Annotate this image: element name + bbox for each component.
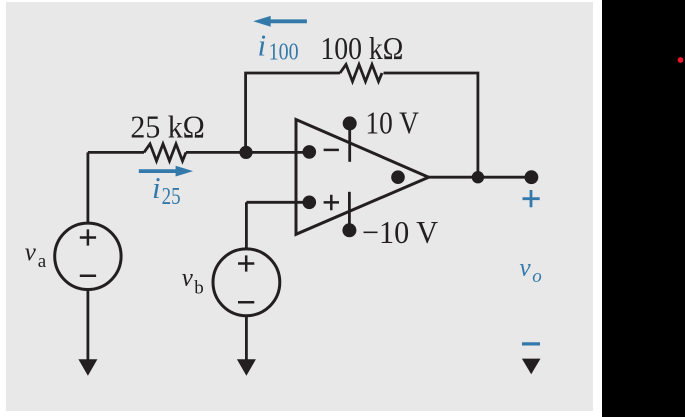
svg-text:i: i (258, 28, 267, 63)
svg-text:v: v (520, 254, 532, 281)
output reference arrowhead (522, 359, 541, 375)
node dot +10V (343, 116, 357, 130)
svg-text:100: 100 (269, 39, 299, 65)
wire feedback right + down to output node (384, 73, 478, 177)
source vb circle (213, 249, 280, 316)
node dot input junction (239, 146, 252, 159)
plus sign in vb (238, 255, 254, 271)
svg-text:25 kΩ: 25 kΩ (130, 108, 205, 144)
wire 25k left lead (88, 151, 144, 154)
svg-text:v: v (25, 239, 37, 266)
ground arrow va (78, 359, 97, 376)
svg-text:25: 25 (162, 184, 181, 210)
node dot noninverting input (303, 196, 317, 210)
wire output horizontal (429, 176, 532, 179)
wire feedback left vertical (246, 73, 340, 152)
node dot op-amp output (391, 170, 405, 184)
black sidebar (602, 0, 685, 417)
wire vb top vertical (245, 202, 248, 248)
minus sign in va (80, 275, 96, 278)
svg-text:−10 V: −10 V (362, 214, 438, 250)
svg-text:i: i (152, 170, 161, 205)
ground arrow vb (237, 359, 256, 376)
resistor R25 zigzag (144, 144, 186, 161)
svg-text:10 V: 10 V (365, 104, 419, 140)
minus sign inverting input (324, 149, 339, 152)
svg-text:v: v (182, 265, 194, 292)
node dot -10V (342, 223, 356, 237)
red marker dot (678, 57, 684, 63)
svg-text:o: o (532, 266, 542, 287)
wire vb bottom (245, 316, 248, 361)
minus sign in vb (238, 301, 254, 304)
wire va top vertical (87, 152, 90, 222)
node dot output terminal (525, 170, 539, 184)
supply line +10V (348, 127, 351, 162)
current arrow i25 (139, 166, 193, 177)
svg-text:100 kΩ: 100 kΩ (320, 30, 403, 66)
svg-text:b: b (194, 277, 204, 298)
node dot feedback junction (472, 171, 484, 183)
node dot inverting input (303, 145, 317, 159)
wire 25k right lead to inverting input (186, 151, 309, 154)
current arrow i100 (253, 16, 307, 27)
minus sign output terminal (522, 342, 540, 345)
resistor R100 zigzag (340, 65, 382, 82)
plus sign output terminal (523, 190, 540, 207)
plus sign in va (80, 229, 96, 245)
source va circle (55, 223, 121, 289)
op-amp U1 triangle (296, 120, 429, 235)
wire noninverting input horizontal (246, 201, 309, 204)
wire va bottom (87, 290, 90, 362)
plus sign noninverting input (324, 195, 339, 211)
supply line -10V (348, 192, 351, 226)
svg-text:a: a (38, 251, 47, 272)
